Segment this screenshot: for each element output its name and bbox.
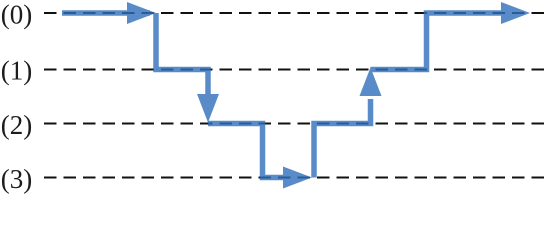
arrowhead right A1 bbox=[127, 2, 156, 24]
level line (2) bbox=[44, 123, 547, 125]
level line (0) bbox=[44, 12, 547, 14]
arrowhead right A3 bbox=[283, 167, 312, 189]
arrowhead up A4 bbox=[360, 68, 382, 97]
wire segment level1 right and up to level0 and right bbox=[371, 13, 503, 70]
wire segment level0 right bbox=[62, 10, 150, 16]
wire segment level2 right and down to level3 bbox=[208, 124, 284, 178]
wire segment down to level1 and right bbox=[156, 13, 208, 98]
blue step trace bbox=[62, 2, 530, 189]
arrowhead right A5 bbox=[501, 2, 530, 24]
wire segment up to level2 and right bbox=[314, 99, 371, 178]
level line (1) bbox=[44, 69, 547, 71]
level line (3) bbox=[44, 177, 547, 179]
svg-text:(2): (2) bbox=[1, 110, 32, 140]
svg-text:(3): (3) bbox=[1, 164, 32, 194]
arrowhead down A2 bbox=[197, 94, 219, 123]
svg-text:(0): (0) bbox=[1, 0, 32, 29]
svg-text:(1): (1) bbox=[1, 55, 32, 85]
